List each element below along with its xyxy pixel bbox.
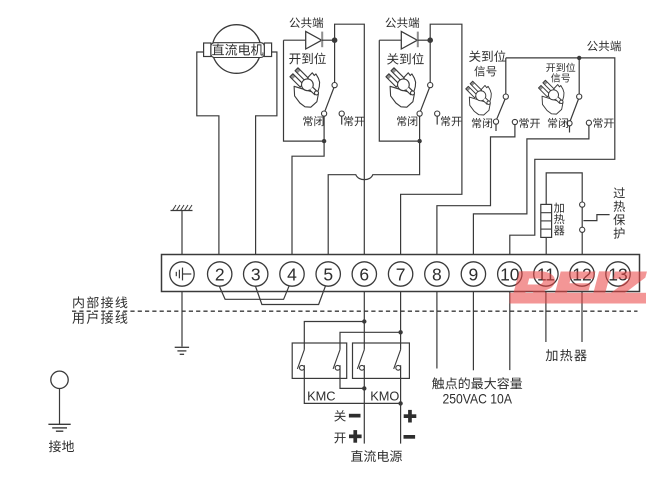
svg-text:REIZ: REIZ: [512, 264, 645, 311]
svg-text:3: 3: [251, 264, 261, 284]
svg-text:8: 8: [432, 264, 442, 284]
svg-text:4: 4: [287, 264, 297, 284]
svg-text:2: 2: [215, 264, 225, 284]
svg-text:5: 5: [323, 264, 333, 284]
svg-text:KMO: KMO: [370, 388, 399, 403]
svg-text:6: 6: [359, 264, 369, 284]
svg-text:9: 9: [469, 264, 479, 284]
svg-text:7: 7: [396, 264, 406, 284]
svg-text:250VAC 10A: 250VAC 10A: [442, 392, 512, 407]
svg-text:KMC: KMC: [307, 388, 335, 403]
